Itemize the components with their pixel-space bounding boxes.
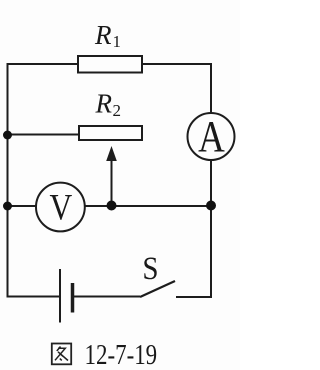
- rheostat R2 wiper arrow: [106, 146, 117, 206]
- ammeter A: [188, 112, 235, 161]
- svg-text:R: R: [94, 20, 112, 50]
- wire: bottom segment battery to switch pivot: [73, 296, 140, 298]
- voltmeter V: [36, 183, 85, 232]
- svg-text:1: 1: [113, 32, 122, 51]
- switch S lever: [140, 281, 175, 297]
- wire: outer loop (left, top, right sides): [8, 64, 212, 297]
- svg-text:A: A: [198, 112, 225, 161]
- junction node: wiper shaft / voltmeter branch: [107, 201, 117, 211]
- junction node: left wire / R2 branch: [3, 131, 12, 140]
- wire: switch fixed contact segment to bottom-right corner: [176, 296, 212, 298]
- battery cell: short negative plate: [71, 283, 75, 313]
- svg-text:12-7-19: 12-7-19: [85, 339, 158, 370]
- wire: bottom left segment to battery: [7, 296, 60, 298]
- label R2: [95, 89, 122, 121]
- svg-text:V: V: [50, 187, 73, 228]
- caption: hanzi TU (figure) drawn as strokes: [52, 344, 71, 365]
- svg-text:R: R: [95, 89, 113, 119]
- svg-text:2: 2: [113, 101, 122, 120]
- wire: voltmeter branch across: [8, 205, 212, 207]
- wire: R2 branch from left wire to rheostat: [8, 134, 81, 136]
- junction node: left wire / voltmeter branch: [3, 202, 12, 211]
- rheostat R2: [79, 126, 142, 140]
- label R1: [94, 20, 121, 51]
- junction node: right wire / voltmeter branch: [206, 201, 216, 211]
- battery cell: long positive plate: [59, 269, 61, 323]
- resistor R1: [78, 56, 142, 73]
- svg-text:S: S: [142, 249, 158, 286]
